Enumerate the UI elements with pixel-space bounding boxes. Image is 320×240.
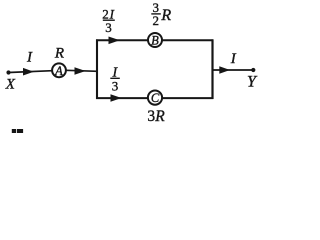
svg-text:A: A bbox=[54, 64, 63, 78]
svg-text:3: 3 bbox=[147, 108, 155, 125]
svg-text:2: 2 bbox=[153, 13, 160, 28]
svg-text:X: X bbox=[5, 77, 16, 93]
svg-text:C: C bbox=[151, 91, 160, 105]
svg-text:3: 3 bbox=[105, 20, 112, 35]
svg-text:R: R bbox=[160, 7, 171, 24]
svg-text:I: I bbox=[230, 51, 237, 67]
svg-text:R: R bbox=[54, 46, 64, 62]
svg-text:I: I bbox=[26, 50, 33, 66]
svg-text:3: 3 bbox=[112, 78, 119, 93]
svg-text:B: B bbox=[151, 34, 159, 48]
svg-text:R: R bbox=[154, 108, 165, 125]
